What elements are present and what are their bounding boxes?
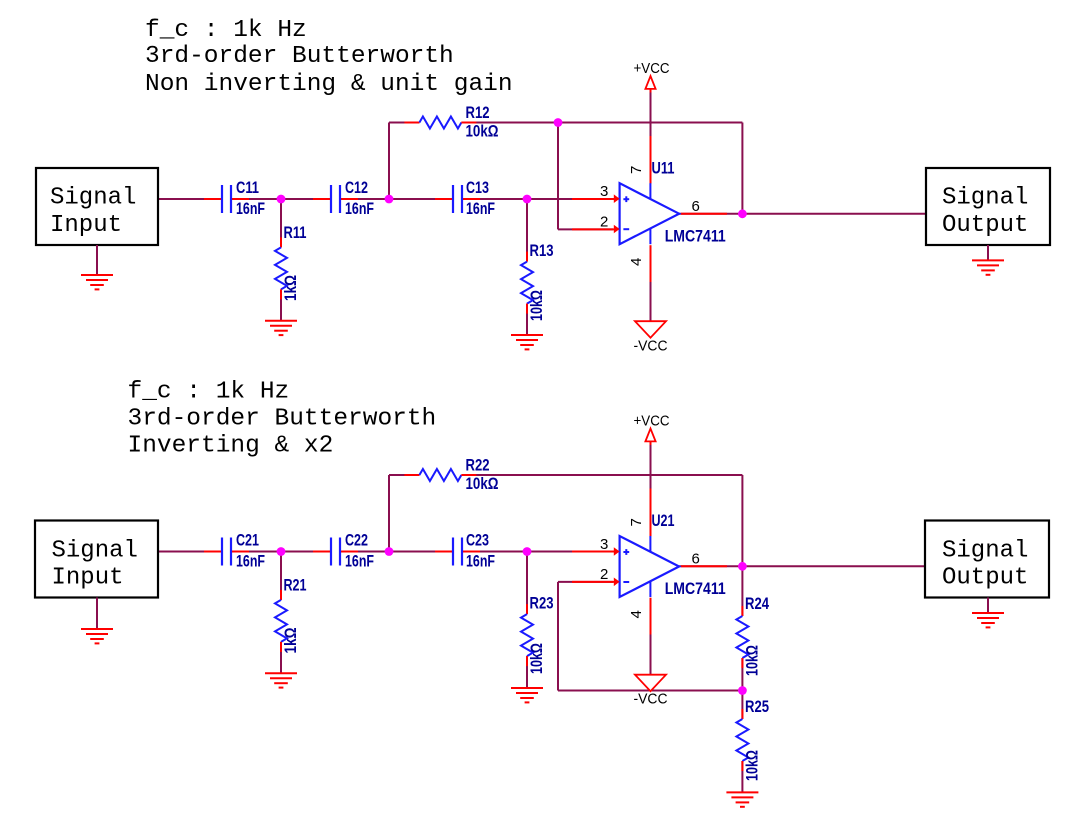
title block bottom circuit [128,379,437,460]
wire input box to C11 [158,198,222,200]
wire C23 to op-amp pin 3 [462,551,613,553]
Signal Input box top [36,168,158,245]
svg-text:10kΩ: 10kΩ [743,750,762,781]
svg-text:Output: Output [942,565,1028,592]
svg-text:10kΩ: 10kΩ [466,122,499,141]
ground R13 [511,335,543,349]
wire C21 to C22 [231,551,331,553]
svg-text:R23: R23 [530,594,554,613]
ground output bottom circuit [972,613,1004,627]
capacitor C12 [313,178,374,218]
wire pin 4 to -VCC [650,635,652,675]
junction node C13/R13/pin3 [523,195,532,204]
junction node R24/R25/pin2 [738,686,747,695]
power -VCC top circuit [634,321,668,354]
Signal Output box top [926,168,1050,245]
pin 6 red lead [681,213,727,215]
wire input box to ground [96,598,98,630]
wire R13 node down [526,199,528,262]
power +VCC bottom circuit [634,413,670,445]
wire R25 to ground [741,761,743,792]
svg-text:10kΩ: 10kΩ [527,290,546,321]
svg-text:4: 4 [628,610,645,618]
svg-text:Signal: Signal [942,538,1028,565]
svg-text:R21: R21 [284,576,307,595]
ground R23 [511,688,543,702]
wire op-amp output to output box [679,213,926,215]
wire R12 right to feedback node [461,122,742,124]
wire R24 to divider node [741,658,743,691]
wire C13 to op-amp pin 3 [462,198,613,200]
wire pin 4 to -VCC [650,282,652,321]
svg-text:2: 2 [600,213,608,230]
wire R22 right to output corner [461,474,742,476]
junction node C21/R21 [277,547,286,556]
ground R21 [265,673,297,687]
pin 7 lead [650,136,652,184]
wire output box to ground [987,598,989,614]
resistor R24 [736,594,769,676]
svg-text:10kΩ: 10kΩ [466,474,499,493]
wire input box to C21 [158,551,222,553]
ground R11 [265,321,297,335]
junction node C12/C13/R12 [385,195,394,204]
svg-text:6: 6 [692,551,700,568]
junction node feedback/pin2 [554,118,563,127]
wire C22 to C23 [340,551,453,553]
capacitor C23 [435,531,495,571]
pin 2 red lead [572,228,614,230]
svg-text:Inverting & x2: Inverting & x2 [128,433,334,460]
resistor R12 [404,103,498,141]
svg-text:Non inverting & unit gain: Non inverting & unit gain [145,71,513,98]
svg-text:U11: U11 [652,159,675,178]
wire op-amp pin 2 left [558,581,613,583]
Signal Output box bottom [925,521,1049,598]
wire R22 corner down to output node [741,475,743,566]
svg-text:+VCC: +VCC [634,413,670,430]
resistor R25 [736,697,769,781]
wire R24 node down [741,566,743,616]
power -VCC bottom circuit [634,675,668,708]
svg-text:3: 3 [600,536,608,553]
svg-text:f_c : 1k Hz: f_c : 1k Hz [128,379,290,406]
svg-text:7: 7 [628,166,645,174]
svg-text:Input: Input [52,565,124,592]
svg-text:3rd-order Butterworth: 3rd-order Butterworth [128,406,437,433]
pin 3 red lead [572,551,614,553]
wire feedback node down to pin 2 [557,123,559,230]
resistor R11 [275,223,307,301]
wire +VCC to pin 7 [650,445,652,489]
ground R25 [726,792,758,806]
wire pin 2 down [557,582,559,691]
wire R22 left [389,474,419,476]
svg-text:f_c : 1k Hz: f_c : 1k Hz [145,17,307,44]
wire R11 to ground [280,289,282,320]
wire R11 node down [280,199,282,247]
pin 4 lead [650,245,652,282]
svg-text:16nF: 16nF [236,552,265,571]
svg-text:2: 2 [600,566,608,583]
svg-text:7: 7 [628,518,645,526]
capacitor C13 [435,178,495,218]
svg-text:Output: Output [942,212,1028,239]
wire R13 to ground [526,304,528,335]
pin 3 red lead [572,198,614,200]
svg-text:R22: R22 [466,456,490,475]
op-amp U11 [614,159,726,246]
wire C12 to C13 [340,198,453,200]
junction node C23/R23/pin3 [523,547,532,556]
junction node output [738,209,747,218]
svg-text:C22: C22 [345,531,368,550]
svg-text:U21: U21 [652,511,675,530]
wire pin 2 to divider node [558,690,742,692]
wire input box to ground [96,245,98,275]
svg-text:1kΩ: 1kΩ [281,275,300,301]
resistor R23 [521,594,554,675]
pin 4 lead [650,598,652,635]
svg-text:16nF: 16nF [236,199,265,218]
svg-text:C21: C21 [236,531,259,550]
capacitor C22 [313,531,374,571]
svg-text:R12: R12 [466,103,490,122]
wire R12 left [389,122,419,124]
svg-text:3rd-order Butterworth: 3rd-order Butterworth [145,43,454,70]
svg-text:10kΩ: 10kΩ [743,645,762,676]
wire R23 node down [526,552,528,615]
wire C11 to C12 [231,198,331,200]
op-amp U21 [614,511,726,598]
svg-text:C11: C11 [236,178,259,197]
wire R25 node down [741,691,743,720]
resistor R13 [521,241,554,321]
svg-text:3: 3 [600,183,608,200]
wire node to R22 branch up [388,475,390,552]
pin 2 red lead [572,581,614,583]
svg-text:C23: C23 [466,531,489,550]
wire output box to ground [987,245,989,260]
svg-text:-VCC: -VCC [634,337,668,354]
power +VCC top circuit [634,60,670,92]
svg-text:R13: R13 [530,241,554,260]
wire R23 to ground [526,656,528,688]
wire to op-amp pin 2 [558,228,613,230]
wire R21 to ground [280,642,282,673]
svg-text:4: 4 [628,258,645,266]
junction node C22/C23/R22 [385,547,394,556]
capacitor C11 [204,178,265,218]
svg-text:Signal: Signal [942,185,1028,212]
svg-text:-VCC: -VCC [634,690,668,707]
junction node output/R24 [738,562,747,571]
svg-text:Signal: Signal [50,185,136,212]
wire R21 node down [280,552,282,600]
ground input top circuit [81,275,113,289]
ground input bottom circuit [81,629,113,643]
wire feedback down to output node [741,123,743,214]
pin 7 lead [650,489,652,537]
svg-text:R25: R25 [745,697,769,716]
svg-text:+VCC: +VCC [634,60,670,77]
svg-text:10kΩ: 10kΩ [527,643,546,674]
svg-text:Signal: Signal [52,538,138,565]
wire +VCC to pin 7 [650,92,652,136]
capacitor C21 [204,531,265,571]
svg-text:LMC7411: LMC7411 [665,579,726,598]
svg-text:R11: R11 [284,223,307,242]
title block top circuit [145,17,513,98]
Signal Input box bottom [35,521,158,598]
wire node to R12 branch up [388,123,390,200]
resistor R21 [275,576,307,654]
svg-text:Input: Input [50,212,122,239]
svg-text:16nF: 16nF [345,199,374,218]
svg-text:16nF: 16nF [345,552,374,571]
svg-text:R24: R24 [745,594,769,613]
svg-text:C12: C12 [345,178,368,197]
svg-text:16nF: 16nF [466,199,495,218]
svg-text:6: 6 [692,198,700,215]
svg-text:LMC7411: LMC7411 [665,227,726,246]
wire op-amp output to output box [679,565,925,567]
ground output top circuit [972,260,1004,274]
pin 6 red lead [681,565,727,567]
svg-text:C13: C13 [466,178,489,197]
resistor R22 [404,456,498,494]
svg-text:1kΩ: 1kΩ [281,628,300,654]
junction node C11/R11 [277,195,286,204]
svg-text:16nF: 16nF [466,552,495,571]
